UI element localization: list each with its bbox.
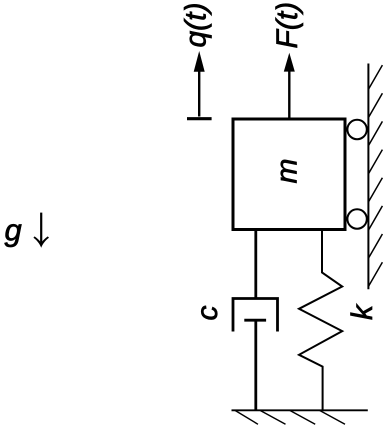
svg-text:m: m: [271, 159, 304, 184]
wall line: [367, 64, 369, 290]
ground line: [232, 409, 368, 411]
spring: [299, 229, 342, 410]
gravity down arrow: [33, 213, 49, 248]
damper rod bottom: [254, 320, 257, 409]
damper rod top: [254, 229, 257, 299]
base tick of q(t): [187, 117, 212, 120]
roller top: [347, 120, 366, 139]
svg-text:g: g: [5, 213, 22, 248]
svg-text:q(t): q(t): [180, 3, 213, 48]
arrow F(t): [284, 53, 295, 119]
damper piston: [244, 319, 266, 322]
mass box: [233, 119, 345, 230]
wall hatching: [368, 65, 382, 286]
roller bottom: [347, 209, 366, 228]
damper cylinder: [233, 299, 278, 332]
svg-text:F(t): F(t): [271, 2, 304, 49]
svg-text:k: k: [346, 303, 379, 320]
ground hatching: [235, 411, 345, 425]
svg-text:c: c: [191, 306, 224, 321]
arrow q(t): [194, 51, 205, 117]
